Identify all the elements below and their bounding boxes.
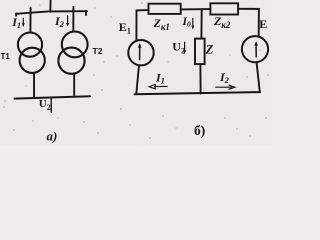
wire Z bottom xyxy=(199,64,201,93)
svg-text:Z: Z xyxy=(205,43,214,57)
voltage arrow U2 (circuit b) xyxy=(183,42,186,54)
wire bottom bus (circuit b) xyxy=(135,92,260,94)
wire feed from top (circuit a) xyxy=(49,0,51,12)
wire stub right end of top bus xyxy=(85,11,87,15)
source E right circle xyxy=(242,36,268,62)
wire left riser (circuit b) xyxy=(136,10,148,41)
current arrow I1 (circuit a) xyxy=(22,18,25,26)
svg-text:Т2: Т2 xyxy=(93,46,103,56)
svg-text:а): а) xyxy=(47,129,58,144)
impedance box Z xyxy=(195,39,205,65)
source E right arrow xyxy=(254,41,258,57)
wire E1 bottom xyxy=(136,65,139,93)
transformer T1 xyxy=(18,33,45,73)
wire bus Zk1 to node xyxy=(181,8,210,10)
impedance box Zk2 xyxy=(210,3,238,14)
current arrow I2 (circuit b) xyxy=(216,85,235,89)
current arrow I0 xyxy=(191,18,194,29)
wire bottom bus (circuit a) xyxy=(15,96,91,98)
source E1 arrow xyxy=(138,43,142,60)
current arrow I2 (circuit a) xyxy=(66,16,69,27)
wire E right bottom xyxy=(257,62,260,91)
svg-text:Т1: Т1 xyxy=(1,52,11,61)
wire stub left end of top bus xyxy=(15,14,17,16)
impedance box Zk1 xyxy=(149,4,181,14)
svg-text:E: E xyxy=(259,17,267,31)
wire T2 bottom xyxy=(73,74,75,97)
voltage arrow U2 (circuit a) xyxy=(50,98,52,112)
svg-text:б): б) xyxy=(194,123,205,138)
wire bus Zk2 to corner and right riser xyxy=(238,9,259,36)
current arrow I1 (circuit b) xyxy=(149,84,167,88)
source E1 circle xyxy=(128,40,153,65)
wire middle riser (circuit b) xyxy=(200,9,202,38)
wire T1 bottom xyxy=(33,73,35,98)
transformer T2 xyxy=(58,32,87,74)
wire drop to T1 xyxy=(29,8,31,33)
wire top bus (circuit a) xyxy=(16,11,87,14)
scan speckles xyxy=(3,2,268,138)
wire drop to T2 xyxy=(72,7,74,31)
